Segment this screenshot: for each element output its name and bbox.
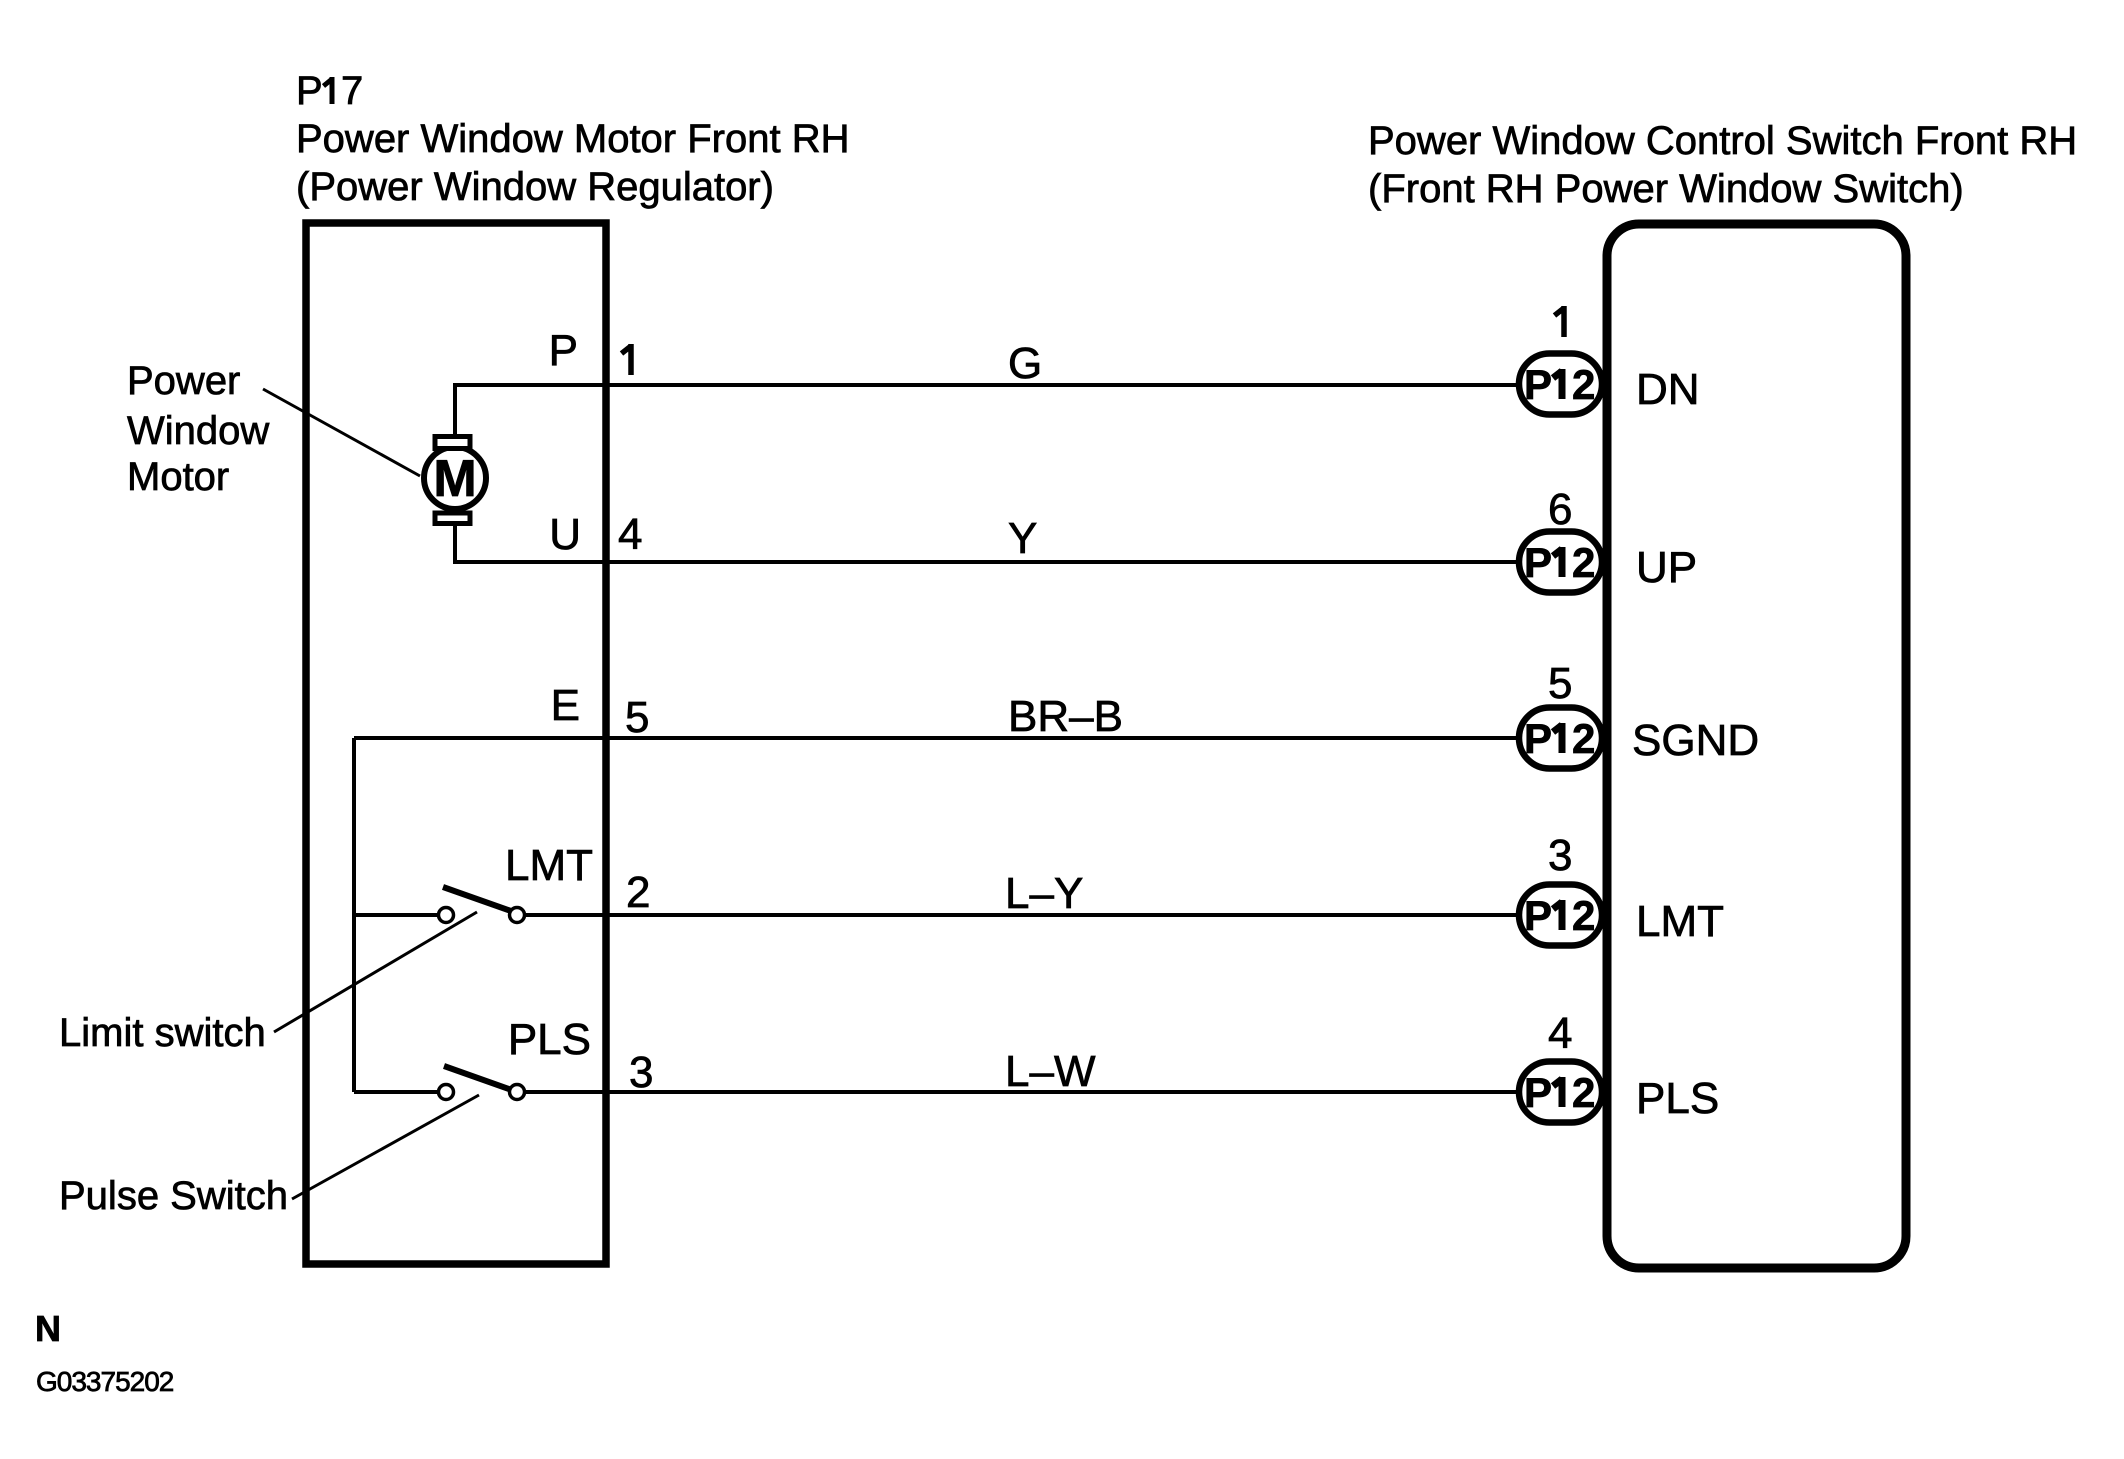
svg-text:Pulse Switch: Pulse Switch (59, 1174, 288, 1218)
wire motor to pin U (455, 524, 1519, 562)
leader line to motor (263, 389, 420, 476)
wire bus to pulse switch (354, 1090, 438, 1094)
svg-text:P: P (1524, 1069, 1552, 1116)
svg-text:2: 2 (1572, 715, 1595, 762)
motor M1 circle (424, 447, 486, 509)
svg-text:PLS: PLS (508, 1015, 591, 1064)
wire ground bus vertical (352, 738, 356, 1092)
svg-text:2: 2 (1572, 892, 1595, 939)
component box power window control switch (1607, 224, 1906, 1268)
pin 1 number left (622, 344, 632, 375)
svg-text:2: 2 (1572, 361, 1595, 408)
svg-text:PLS: PLS (1636, 1074, 1719, 1123)
svg-text:(Front RH Power Window Switch): (Front RH Power Window Switch) (1368, 167, 1964, 211)
svg-text:N: N (35, 1308, 61, 1349)
svg-text:P: P (549, 326, 578, 375)
svg-text:M: M (433, 450, 476, 508)
leader line to limit switch (274, 912, 477, 1032)
svg-text:3: 3 (629, 1048, 653, 1097)
svg-text:3: 3 (1548, 831, 1572, 880)
svg-text:G: G (1008, 339, 1042, 388)
svg-text:5: 5 (625, 693, 649, 742)
wire motor to pin P (455, 385, 1519, 437)
svg-text:Motor: Motor (127, 455, 229, 499)
svg-text:UP: UP (1636, 543, 1697, 592)
limit switch S1 contacts (439, 908, 525, 923)
svg-text:L–Y: L–Y (1005, 869, 1083, 918)
wire pulse switch to pin PLS (525, 1090, 1519, 1094)
svg-text:E: E (551, 681, 580, 730)
svg-text:Power Window Control Switch Fr: Power Window Control Switch Front RH (1368, 119, 2077, 163)
connector pin oval P12 row 3 (1519, 708, 1602, 769)
svg-text:G03375202: G03375202 (36, 1366, 174, 1397)
pulse switch S2 contacts (439, 1085, 525, 1100)
svg-text:LMT: LMT (1636, 897, 1724, 946)
svg-text:6: 6 (1548, 485, 1572, 534)
wire limit switch to pin LMT (525, 913, 1519, 917)
svg-text:7: 7 (341, 69, 363, 113)
svg-text:P: P (1524, 539, 1552, 586)
svg-text:2: 2 (1572, 1069, 1595, 1116)
limit switch S1 blade (443, 887, 511, 911)
svg-text:2: 2 (1572, 539, 1595, 586)
svg-text:LMT: LMT (505, 841, 593, 890)
svg-text:5: 5 (1548, 659, 1572, 708)
svg-text:DN: DN (1636, 365, 1700, 414)
svg-text:P: P (1524, 892, 1552, 939)
connector pin oval P12 row 5 (1519, 1062, 1602, 1123)
connector pin oval P12 row 1 (1519, 354, 1602, 415)
svg-text:Power Window Motor Front RH: Power Window Motor Front RH (296, 117, 849, 161)
svg-text:P: P (1524, 715, 1552, 762)
connector pin oval P12 row 4 (1519, 885, 1602, 946)
motor top brush cap (435, 437, 470, 449)
svg-text:Y: Y (1008, 514, 1037, 563)
svg-text:Power: Power (127, 359, 240, 403)
pulse switch S2 blade (444, 1066, 509, 1089)
header label Power Window Control Switch Front RH (1368, 119, 2077, 211)
motor bottom brush cap (435, 513, 470, 524)
leader line to pulse switch (292, 1095, 479, 1199)
svg-text:4: 4 (618, 510, 642, 559)
svg-text:P: P (1524, 361, 1552, 408)
wire bus to limit switch (354, 913, 438, 917)
svg-text:4: 4 (1548, 1009, 1572, 1058)
pin 1 number right (1555, 306, 1565, 337)
connector P17 header label (296, 69, 849, 209)
svg-text:Limit switch: Limit switch (59, 1011, 266, 1055)
svg-text:2: 2 (626, 868, 650, 917)
svg-text:P: P (296, 69, 323, 113)
svg-text:SGND: SGND (1632, 716, 1759, 765)
svg-text:BR–B: BR–B (1008, 692, 1123, 741)
svg-text:L–W: L–W (1005, 1047, 1096, 1096)
svg-text:U: U (549, 510, 581, 559)
svg-text:(Power Window Regulator): (Power Window Regulator) (296, 165, 774, 209)
component box P17 power window motor (306, 223, 606, 1264)
wire pin E to SGND (354, 736, 1519, 740)
svg-text:Window: Window (127, 409, 269, 453)
label Power Window Motor (127, 359, 269, 499)
connector pin oval P12 row 2 (1519, 532, 1602, 593)
